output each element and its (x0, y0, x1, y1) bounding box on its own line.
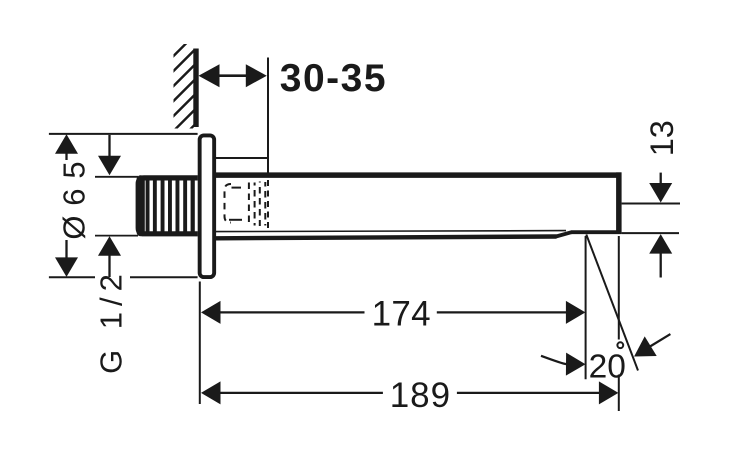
dimension 174 (201, 236, 586, 379)
spout body (216, 172, 621, 238)
wall face line (193, 49, 198, 128)
hidden internals (dashed) (225, 182, 266, 227)
svg-text:189: 189 (390, 376, 451, 415)
svg-text:G 1/2: G 1/2 (94, 268, 129, 374)
dimension 30-35 (199, 57, 388, 228)
svg-text:20: 20 (589, 348, 626, 385)
dimension G 1/2 (thread) (94, 135, 139, 374)
collar edge line (215, 157, 269, 159)
thread nipple G 1/2 (137, 175, 198, 236)
dimension 13 (622, 120, 680, 277)
angle 20 deg (541, 235, 670, 386)
dimension Ø65 (49, 134, 198, 277)
dimension 189 (201, 236, 619, 415)
wall hatch (167, 15, 200, 153)
flange (escutcheon) (200, 135, 215, 277)
svg-text:Ø65: Ø65 (56, 152, 91, 240)
svg-text:30-35: 30-35 (280, 57, 387, 100)
svg-text:174: 174 (372, 295, 431, 334)
extension line wall face (199, 282, 201, 405)
svg-text:13: 13 (644, 120, 680, 156)
